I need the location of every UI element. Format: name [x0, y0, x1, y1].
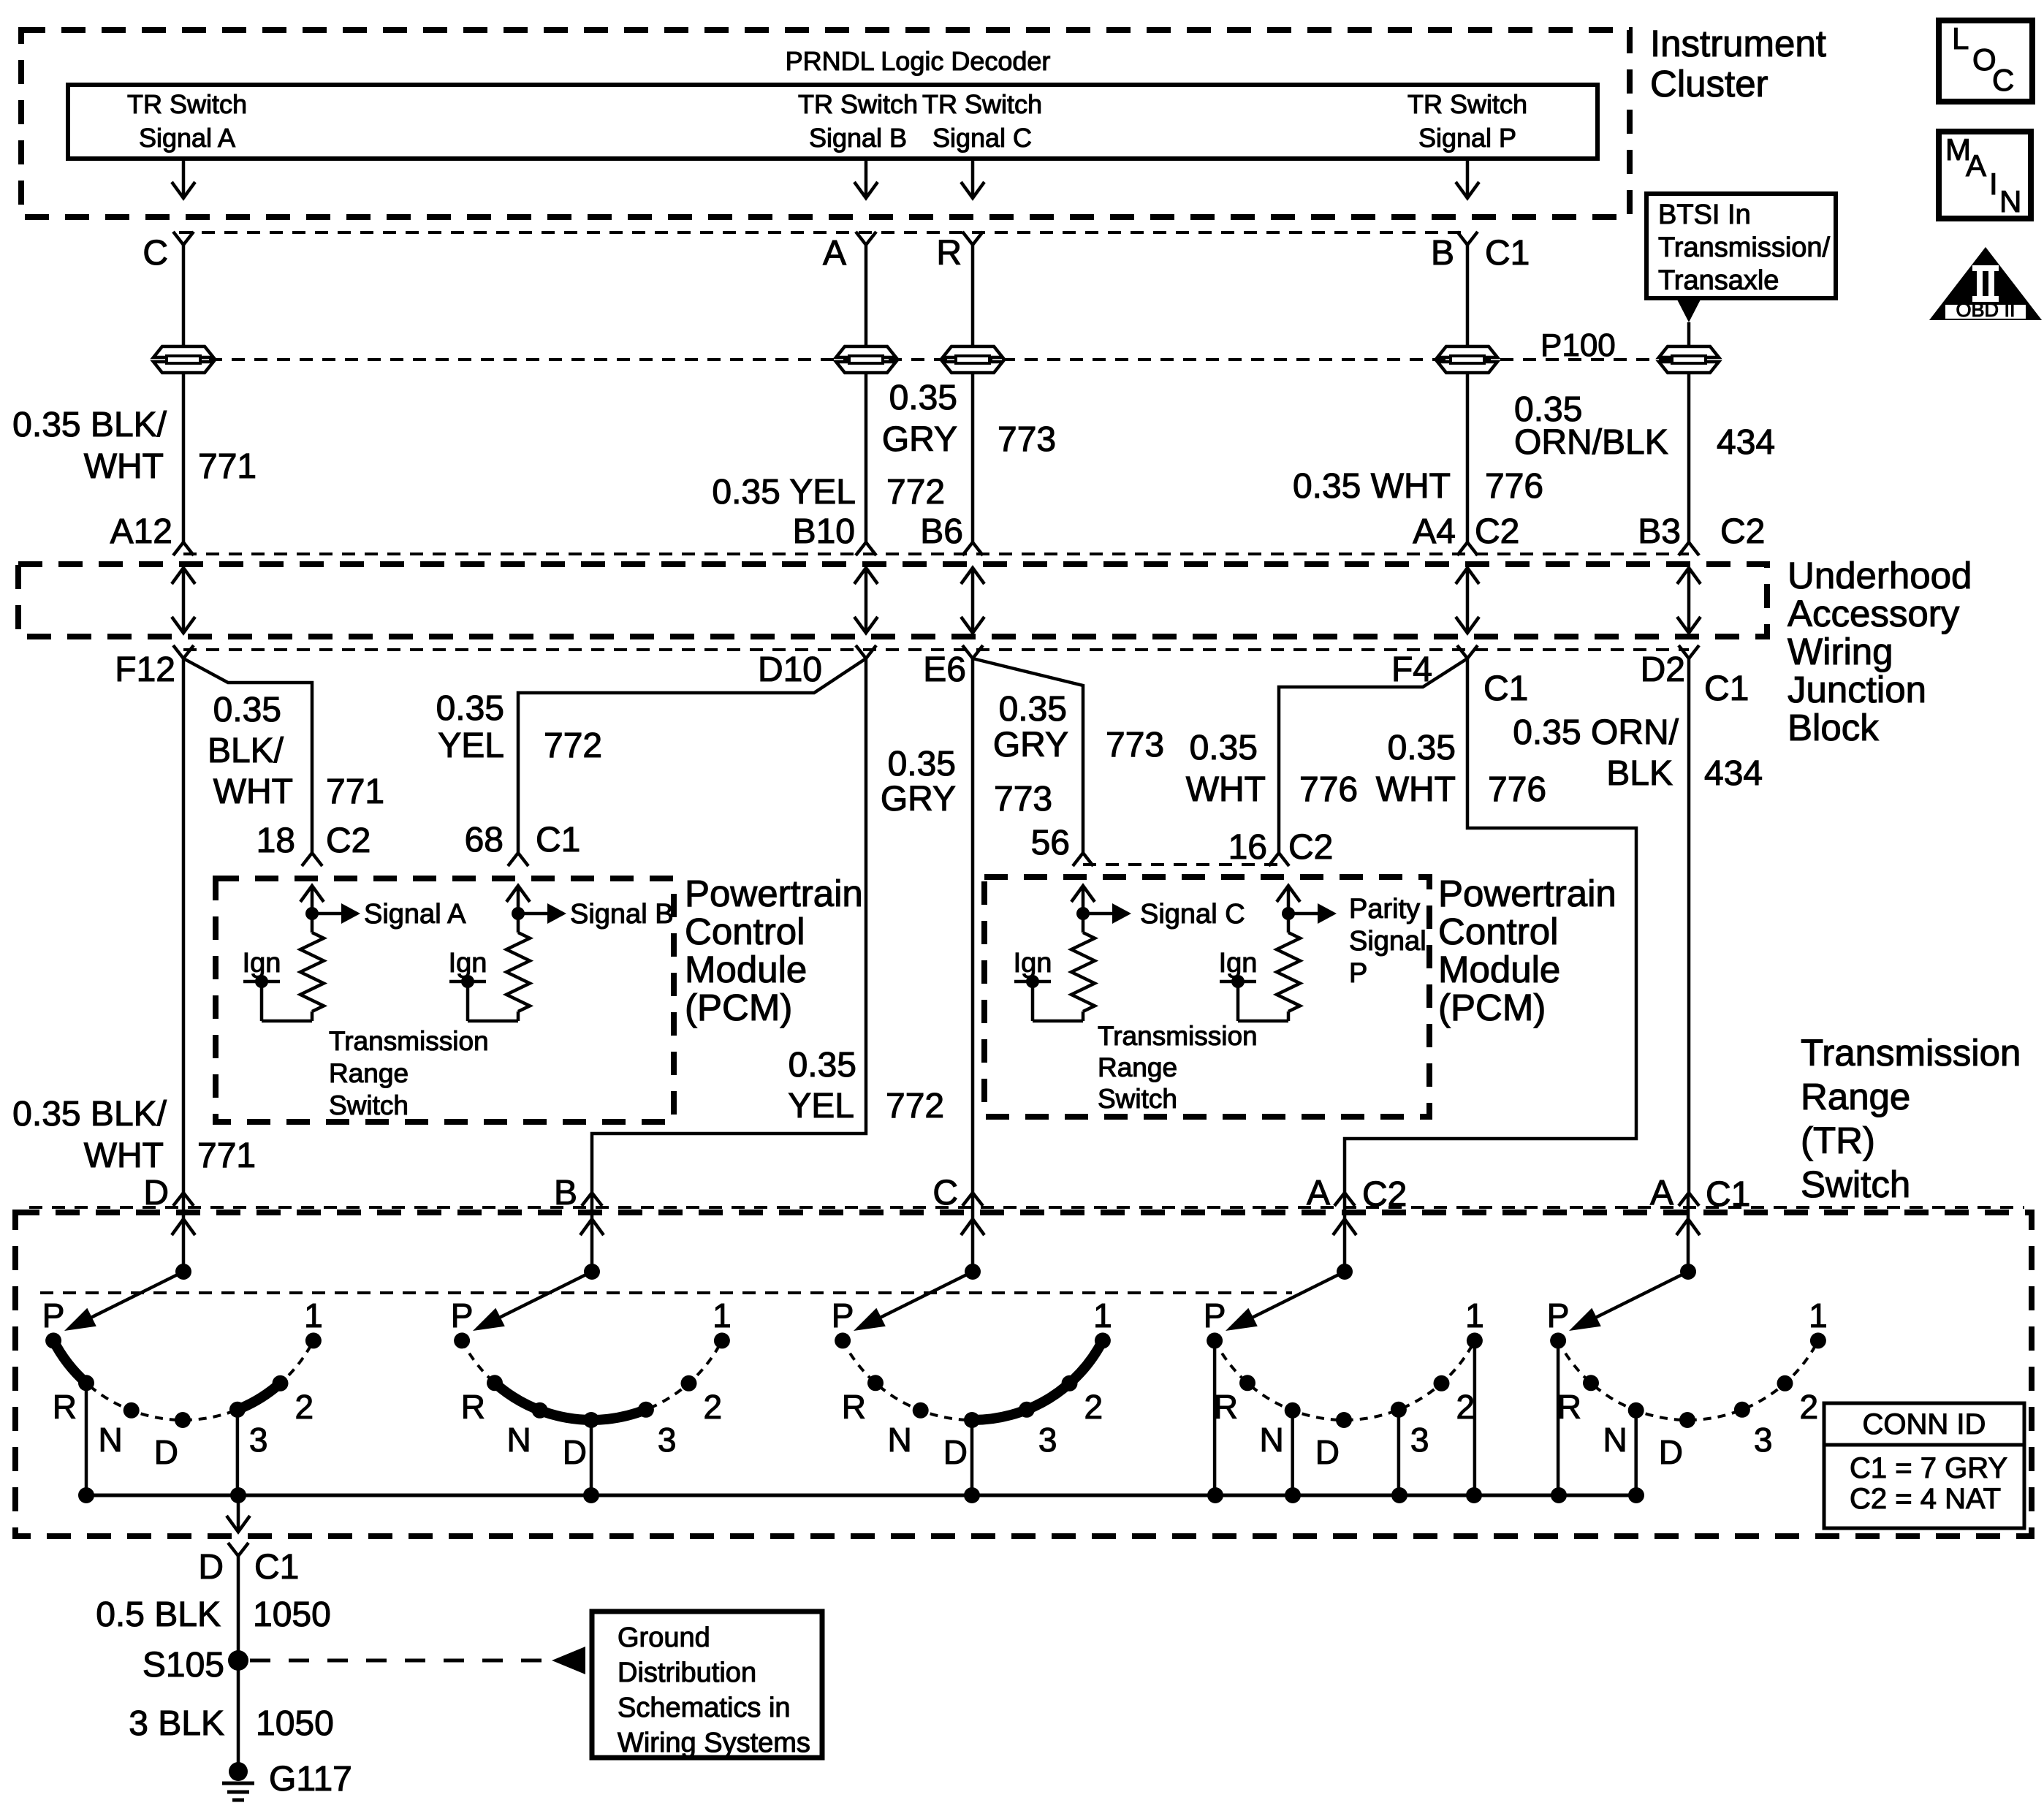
svg-text:Powertrain: Powertrain: [685, 873, 863, 914]
svg-text:GRY: GRY: [881, 780, 956, 819]
ground output fork D/C1: [228, 1543, 248, 1556]
svg-text:0.35 YEL: 0.35 YEL: [712, 473, 856, 512]
svg-text:Range: Range: [1801, 1076, 1910, 1117]
OBD II band: [1945, 305, 2026, 319]
svg-text:Wiring: Wiring: [1787, 631, 1893, 672]
wire 772 upper segment: [865, 245, 868, 346]
bus junction dot x=1663: [1207, 1487, 1223, 1503]
inline connector P100 conn 776: [1437, 346, 1497, 357]
svg-text:Transmission/: Transmission/: [1658, 232, 1831, 263]
svg-text:Signal B: Signal B: [809, 123, 907, 153]
svg-text:2: 2: [704, 1388, 723, 1426]
svg-text:(PCM): (PCM): [685, 987, 792, 1028]
LOC box: [1939, 20, 2032, 102]
ground distribution reference box: [592, 1611, 822, 1758]
TR common line (dashed): [40, 1291, 1292, 1294]
svg-text:Control: Control: [1438, 911, 1558, 952]
branch wire F12 to pin 18: [183, 658, 312, 853]
svg-text:776: 776: [1488, 770, 1546, 809]
wire signal C output arrow: [971, 159, 975, 196]
junction bottom fork x=251: [173, 645, 194, 658]
svg-text:Signal B: Signal B: [570, 899, 674, 930]
wire 776 main run: [1345, 658, 1636, 1193]
svg-text:B6: B6: [920, 512, 963, 551]
svg-text:G117: G117: [269, 1760, 352, 1799]
svg-text:D: D: [1315, 1433, 1340, 1471]
wire signal A output arrow: [182, 159, 186, 196]
pin B fork: [1457, 232, 1478, 245]
svg-text:P: P: [42, 1296, 65, 1334]
svg-text:R: R: [842, 1388, 866, 1426]
svg-text:773: 773: [994, 780, 1052, 819]
junction pass-through arrow x=2311: [1687, 570, 1691, 631]
svg-text:1: 1: [1465, 1296, 1484, 1334]
svg-text:D2: D2: [1641, 650, 1685, 689]
svg-text:C1: C1: [1485, 234, 1530, 273]
svg-text:773: 773: [998, 420, 1056, 459]
svg-text:P: P: [1349, 958, 1367, 989]
svg-text:776: 776: [1299, 770, 1358, 809]
svg-text:P: P: [832, 1296, 854, 1334]
svg-text:TR Switch: TR Switch: [1407, 89, 1527, 119]
svg-text:C2 = 4 NAT: C2 = 4 NAT: [1850, 1483, 2001, 1515]
svg-text:BLK/: BLK/: [208, 732, 284, 770]
svg-text:771: 771: [198, 447, 257, 486]
svg-text:B10: B10: [793, 512, 855, 551]
svg-text:18: 18: [257, 821, 295, 860]
svg-text:R: R: [936, 234, 962, 273]
connector line junction bottom (dashed): [183, 648, 1689, 651]
svg-text:1: 1: [713, 1296, 732, 1334]
svg-text:TR Switch: TR Switch: [798, 89, 918, 119]
svg-text:0.35 WHT: 0.35 WHT: [1293, 467, 1451, 506]
svg-text:N: N: [98, 1421, 122, 1459]
svg-text:2: 2: [1456, 1388, 1475, 1426]
svg-text:3: 3: [249, 1421, 268, 1459]
svg-text:L: L: [1952, 21, 1969, 56]
rotary switch 3 (Signal C): [971, 1193, 975, 1272]
svg-text:0.35: 0.35: [436, 689, 504, 728]
junction bottom fork x=1331: [962, 645, 983, 658]
svg-text:D: D: [1659, 1433, 1683, 1471]
svg-text:3: 3: [1410, 1421, 1429, 1459]
switch common bus: [86, 1494, 1636, 1497]
dashed pass-through line P100: [186, 358, 1689, 361]
PCM module 1 box: [216, 878, 674, 1122]
svg-text:WHT: WHT: [1186, 770, 1266, 809]
bus junction dot x=2239: [1628, 1487, 1644, 1503]
svg-text:B: B: [1431, 234, 1454, 273]
svg-text:Module: Module: [1438, 949, 1560, 990]
svg-text:Range: Range: [1098, 1052, 1177, 1082]
wire 771 upper segment: [182, 245, 186, 346]
svg-text:N: N: [506, 1421, 531, 1459]
svg-text:Ign: Ign: [1014, 948, 1052, 979]
svg-text:R: R: [53, 1388, 77, 1426]
svg-text:0.35 BLK/: 0.35 BLK/: [12, 1095, 167, 1134]
svg-text:D: D: [943, 1433, 968, 1471]
svg-text:3: 3: [1038, 1421, 1057, 1459]
svg-text:Signal P: Signal P: [1418, 123, 1516, 153]
svg-text:C1: C1: [1483, 669, 1528, 708]
bus junction dot x=2133: [1551, 1487, 1567, 1503]
svg-text:CONN ID: CONN ID: [1863, 1408, 1986, 1440]
pin R fork: [962, 232, 983, 245]
svg-text:0.35 BLK/: 0.35 BLK/: [12, 406, 167, 444]
connector line junction top (dashed): [183, 553, 1689, 555]
pin A fork: [856, 232, 876, 245]
svg-text:S105: S105: [143, 1646, 224, 1685]
svg-text:R: R: [461, 1388, 485, 1426]
svg-text:C2: C2: [1720, 512, 1765, 551]
resistor R-C (Signal C pull-up): [1082, 889, 1085, 933]
ground output wire: [237, 1495, 240, 1532]
inline connector P100 conn 772: [836, 346, 896, 357]
OBD II triangle: [1929, 247, 2042, 320]
svg-text:Switch: Switch: [329, 1090, 409, 1120]
instrument cluster box: [21, 30, 1630, 217]
svg-text:OBD II: OBD II: [1956, 299, 2015, 321]
svg-text:3: 3: [658, 1421, 677, 1459]
svg-text:Block: Block: [1787, 707, 1879, 748]
svg-text:2: 2: [1084, 1388, 1103, 1426]
svg-text:771: 771: [197, 1136, 256, 1175]
rotary switch 4 (Signal P): [1343, 1193, 1347, 1272]
svg-text:0.35: 0.35: [999, 690, 1067, 729]
svg-text:Parity: Parity: [1349, 894, 1420, 925]
svg-text:Underhood: Underhood: [1787, 555, 1972, 596]
junction pass-through arrow x=2008: [1466, 570, 1470, 631]
svg-text:WHT: WHT: [84, 1136, 164, 1175]
svg-text:3: 3: [1754, 1421, 1773, 1459]
svg-text:WHT: WHT: [1376, 770, 1456, 809]
pin C fork: [173, 232, 194, 245]
svg-text:Switch: Switch: [1801, 1163, 1910, 1205]
svg-text:N: N: [1999, 184, 2021, 219]
svg-text:Switch: Switch: [1098, 1084, 1177, 1114]
svg-text:1050: 1050: [253, 1595, 331, 1634]
wire signal P output arrow: [1466, 159, 1470, 196]
junction top fork x=2311: [1679, 542, 1699, 555]
inline connector P100 conn 773: [943, 346, 1003, 357]
svg-text:N: N: [887, 1421, 911, 1459]
wire 773 upper segment: [971, 245, 975, 346]
svg-text:1: 1: [1809, 1296, 1828, 1334]
svg-text:ORN/BLK: ORN/BLK: [1514, 423, 1668, 462]
junction bottom fork x=2311: [1679, 645, 1699, 658]
branch wire D10 to pin 68: [518, 658, 866, 853]
svg-text:Transmission: Transmission: [1098, 1021, 1258, 1051]
svg-text:C1: C1: [254, 1548, 299, 1587]
svg-text:Transmission: Transmission: [329, 1026, 489, 1056]
svg-text:A: A: [1966, 148, 1986, 183]
PRNDL logic decoder box: [68, 85, 1597, 159]
branch wire F4 to pin 16: [1279, 658, 1467, 853]
resistor R-P (Parity pull-up): [1287, 889, 1291, 933]
junction top fork x=1331: [962, 542, 983, 555]
svg-text:A4: A4: [1413, 512, 1456, 551]
svg-text:WHT: WHT: [213, 772, 293, 811]
svg-text:16: 16: [1228, 828, 1267, 867]
ground G117: [229, 1762, 248, 1781]
svg-text:B3: B3: [1638, 512, 1681, 551]
svg-text:1: 1: [1093, 1296, 1112, 1334]
svg-text:C2: C2: [1475, 512, 1519, 551]
junction pass-through arrow x=1185: [865, 570, 868, 631]
svg-text:P: P: [1547, 1296, 1570, 1334]
svg-text:D: D: [154, 1433, 178, 1471]
svg-text:GRY: GRY: [882, 420, 957, 459]
junction pass-through arrow x=1331: [971, 570, 975, 631]
svg-text:Junction: Junction: [1787, 669, 1926, 710]
inline connector P100 conn 771: [153, 346, 213, 357]
connector line PCM2 pins (dashed): [1083, 863, 1279, 866]
svg-text:TR Switch: TR Switch: [127, 89, 247, 119]
svg-text:434: 434: [1704, 754, 1763, 793]
svg-text:P100: P100: [1540, 327, 1616, 363]
svg-text:A12: A12: [110, 512, 172, 551]
svg-text:C2: C2: [1288, 828, 1333, 867]
rotary switch 5 (BTSI): [1687, 1193, 1690, 1272]
svg-text:GRY: GRY: [993, 726, 1068, 764]
branch wire E6 to pin 56: [973, 658, 1083, 853]
connector line C1 cluster (dashed): [179, 231, 1469, 234]
underhood junction block box: [18, 564, 1767, 637]
svg-text:R: R: [1214, 1388, 1238, 1426]
svg-text:YEL: YEL: [788, 1087, 854, 1125]
svg-text:D10: D10: [758, 650, 822, 689]
svg-text:Transmission: Transmission: [1801, 1032, 2021, 1074]
svg-text:A: A: [823, 234, 846, 273]
svg-text:YEL: YEL: [438, 726, 504, 765]
svg-text:C1: C1: [1704, 669, 1749, 708]
svg-text:Schematics in: Schematics in: [618, 1693, 791, 1723]
bus junction dot x=326: [230, 1487, 246, 1503]
bus junction dot x=1769: [1285, 1487, 1301, 1503]
svg-text:0.35: 0.35: [213, 691, 281, 729]
svg-text:C1 = 7 GRY: C1 = 7 GRY: [1850, 1452, 2007, 1484]
svg-text:Ground: Ground: [618, 1622, 710, 1653]
OBD II pillars: [1972, 265, 1999, 271]
svg-text:R: R: [1557, 1388, 1581, 1426]
svg-text:772: 772: [886, 473, 945, 512]
svg-text:(TR): (TR): [1801, 1120, 1875, 1161]
junction top fork x=2008: [1457, 542, 1478, 555]
svg-text:0.35: 0.35: [889, 379, 957, 417]
TR switch connector line (dashed): [29, 1206, 2024, 1209]
resistor R-A (Signal A pull-up): [311, 889, 314, 933]
svg-text:Distribution: Distribution: [618, 1658, 756, 1688]
svg-text:Transaxle: Transaxle: [1658, 265, 1779, 296]
svg-text:BTSI In: BTSI In: [1658, 200, 1751, 230]
bus junction dot x=1330: [964, 1487, 980, 1503]
svg-text:0.35: 0.35: [1190, 729, 1258, 767]
wire 771 main run: [182, 658, 186, 1193]
svg-text:BLK: BLK: [1606, 754, 1673, 793]
svg-text:0.35: 0.35: [1388, 729, 1456, 767]
inline connector P100 conn 434: [1659, 346, 1719, 357]
svg-text:TR Switch: TR Switch: [922, 89, 1042, 119]
wire signal B output arrow: [865, 159, 868, 196]
svg-text:Signal C: Signal C: [1140, 899, 1245, 930]
svg-text:C1: C1: [536, 821, 580, 859]
rotary switch 2 (Signal B): [590, 1193, 594, 1272]
svg-text:1: 1: [304, 1296, 323, 1334]
svg-text:0.5 BLK: 0.5 BLK: [96, 1595, 221, 1634]
svg-text:772: 772: [544, 726, 602, 765]
svg-text:D: D: [198, 1548, 224, 1587]
svg-text:Module: Module: [685, 949, 807, 990]
PCM module 2 box: [984, 877, 1429, 1117]
svg-text:(PCM): (PCM): [1438, 987, 1546, 1028]
svg-text:P: P: [1204, 1296, 1226, 1334]
svg-text:0.35: 0.35: [888, 745, 956, 783]
svg-text:776: 776: [1485, 467, 1543, 506]
dashed reference link: [250, 1659, 548, 1663]
svg-text:2: 2: [295, 1388, 314, 1426]
svg-text:D: D: [563, 1433, 587, 1471]
svg-text:C: C: [143, 234, 168, 273]
junction bottom fork x=2008: [1457, 645, 1478, 658]
bus junction dot x=2017: [1466, 1487, 1482, 1503]
BTSI arrow: [1677, 300, 1701, 322]
svg-text:E6: E6: [923, 650, 966, 689]
svg-text:Powertrain: Powertrain: [1438, 873, 1616, 914]
svg-text:Wiring Systems: Wiring Systems: [618, 1728, 810, 1758]
svg-text:773: 773: [1106, 726, 1164, 764]
svg-text:Signal A: Signal A: [364, 899, 466, 930]
svg-text:3 BLK: 3 BLK: [129, 1704, 224, 1743]
svg-text:68: 68: [465, 821, 504, 859]
svg-text:C: C: [1992, 63, 2014, 97]
CONN ID box: [1824, 1403, 2024, 1528]
MAIN box: [1939, 132, 2031, 219]
svg-text:2: 2: [1800, 1388, 1819, 1426]
junction pass-through arrow x=251: [182, 570, 186, 631]
svg-text:0.35: 0.35: [789, 1046, 856, 1085]
svg-text:F12: F12: [115, 650, 175, 689]
wire 772 main run: [592, 658, 866, 1193]
svg-text:Range: Range: [329, 1058, 409, 1088]
svg-text:N: N: [1259, 1421, 1283, 1459]
reference arrowhead: [552, 1647, 585, 1674]
transmission range switch box: [15, 1212, 2032, 1536]
svg-text:434: 434: [1717, 423, 1775, 462]
svg-text:772: 772: [886, 1087, 944, 1125]
svg-text:Signal A: Signal A: [139, 123, 235, 153]
svg-text:Signal C: Signal C: [932, 123, 1032, 153]
junction top fork x=251: [173, 542, 194, 555]
svg-text:PRNDL Logic Decoder: PRNDL Logic Decoder: [786, 46, 1051, 76]
svg-text:0.35 ORN/: 0.35 ORN/: [1513, 713, 1679, 752]
bus junction dot x=809: [583, 1487, 599, 1503]
svg-text:C2: C2: [326, 821, 371, 860]
svg-text:Ign: Ign: [243, 948, 281, 979]
resistor R-B (Signal B pull-up): [517, 889, 520, 933]
wire 434 main run: [1687, 658, 1691, 1193]
wire 773 main run: [971, 658, 975, 1193]
svg-text:Ign: Ign: [449, 948, 487, 979]
junction top fork x=1185: [856, 542, 876, 555]
svg-text:Control: Control: [685, 911, 805, 952]
rotary switch 1 (Signal A): [182, 1193, 186, 1272]
svg-text:771: 771: [326, 772, 384, 811]
svg-text:Signal: Signal: [1349, 926, 1426, 957]
svg-text:1050: 1050: [256, 1704, 334, 1743]
svg-text:Accessory: Accessory: [1787, 593, 1960, 634]
svg-text:I: I: [1989, 167, 1998, 201]
wire 434 from BTSI: [1687, 322, 1691, 346]
wire 1050 to ground: [237, 1660, 240, 1770]
svg-text:Cluster: Cluster: [1650, 63, 1768, 105]
bus junction dot x=1915: [1391, 1487, 1407, 1503]
wire 776 upper segment: [1466, 245, 1470, 346]
bus junction dot x=118: [78, 1487, 94, 1503]
junction bottom fork x=1185: [856, 645, 876, 658]
svg-text:P: P: [451, 1296, 474, 1334]
BTSI box: [1646, 194, 1836, 298]
splice S105: [228, 1650, 248, 1671]
svg-text:Instrument: Instrument: [1650, 23, 1826, 64]
svg-text:Ign: Ign: [1219, 948, 1258, 979]
svg-text:WHT: WHT: [84, 447, 164, 486]
svg-text:56: 56: [1031, 824, 1070, 862]
svg-text:N: N: [1603, 1421, 1627, 1459]
